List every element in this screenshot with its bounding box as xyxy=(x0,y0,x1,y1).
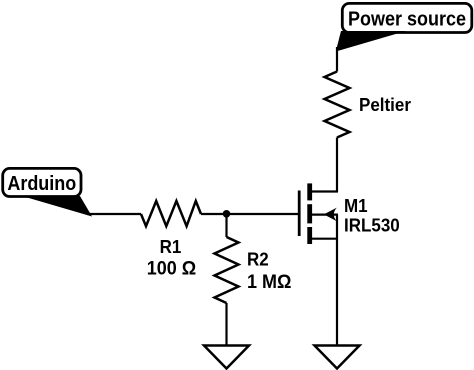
svg-text:1 MΩ: 1 MΩ xyxy=(247,270,291,292)
svg-text:100 Ω: 100 Ω xyxy=(147,257,196,279)
svg-text:Power source: Power source xyxy=(348,9,466,31)
callout Power source tail xyxy=(336,31,406,52)
transistor M1 body lead xyxy=(312,214,338,216)
node junction dot xyxy=(223,210,231,218)
wire source to ground xyxy=(336,215,338,346)
callout Arduino box xyxy=(3,168,81,196)
transistor M1 drain lead xyxy=(312,190,338,192)
ground right xyxy=(315,346,360,369)
transistor M1 body arrow xyxy=(324,208,337,222)
svg-text:Arduino: Arduino xyxy=(7,173,76,195)
transistor M1 source lead xyxy=(312,238,338,240)
resistor R2 xyxy=(215,237,239,303)
transistor M1 channel source bar xyxy=(307,227,312,244)
wire Peltier to drain xyxy=(336,138,338,192)
wire junction to R2 xyxy=(225,214,227,237)
wire power source to Peltier xyxy=(336,47,338,72)
svg-text:IRL530: IRL530 xyxy=(344,215,400,236)
transistor M1 gate plate xyxy=(298,191,301,237)
transistor M1 channel drain bar xyxy=(307,183,312,200)
transistor M1 channel body bar xyxy=(307,204,312,223)
callout Arduino tail xyxy=(22,196,92,217)
svg-text:Peltier: Peltier xyxy=(359,94,411,115)
svg-text:M1: M1 xyxy=(344,195,368,216)
wire R1 to gate xyxy=(201,213,299,215)
wire Arduino to R1 xyxy=(87,213,141,215)
callout Power source box xyxy=(342,3,472,32)
wire R2 to ground xyxy=(225,303,227,346)
svg-text:R2: R2 xyxy=(247,249,269,270)
svg-text:R1: R1 xyxy=(160,236,182,257)
resistor Peltier xyxy=(325,72,350,138)
resistor R1 xyxy=(141,201,201,226)
ground left xyxy=(204,346,249,369)
